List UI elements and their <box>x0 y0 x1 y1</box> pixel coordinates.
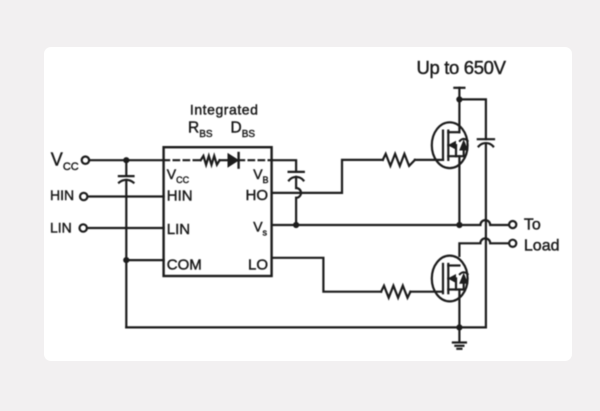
svg-text:LIN: LIN <box>50 219 72 235</box>
wire HO pin to gate resistor <box>272 160 383 193</box>
svg-text:VCC: VCC <box>51 150 79 174</box>
wire C3 down the right rail <box>459 144 486 328</box>
junction Vs/Q1 source <box>456 222 462 228</box>
wire C1 bottom down to COM rail <box>125 180 127 327</box>
wire hop over HO <box>296 188 301 198</box>
node HIN terminal <box>80 193 87 200</box>
wire dashed DBS to VB <box>239 159 272 161</box>
wire dashed VCC to RBS <box>164 159 201 161</box>
transistor Q1 high-side MOSFET <box>432 122 468 168</box>
svg-text:To: To <box>524 217 541 234</box>
wire HV rail to Q1 drain <box>458 88 460 132</box>
junction HV rail <box>456 96 462 102</box>
svg-text:Load: Load <box>524 237 560 254</box>
wire Vs pin to To terminal <box>272 220 509 225</box>
svg-text:RBS: RBS <box>188 120 213 141</box>
wire C2 bottom <box>295 177 297 188</box>
wire Load row <box>459 238 508 256</box>
node HV supply terminal bar <box>454 87 464 89</box>
wire VB pin to bootstrap cap <box>272 160 297 172</box>
wire Q1 source to Vs junction <box>458 156 460 225</box>
svg-text:Integrated: Integrated <box>190 102 259 118</box>
diode DBS cathode bar <box>237 153 239 168</box>
wire C2 to Vs junction <box>295 198 297 225</box>
svg-text:LIN: LIN <box>167 221 190 238</box>
wire R2 to Q2 gate <box>410 291 442 293</box>
svg-text:DBS: DBS <box>231 120 256 141</box>
white schematic card <box>44 47 572 361</box>
node Load terminal <box>509 240 516 247</box>
junction VCC/C1 <box>123 157 129 163</box>
svg-text:VCC: VCC <box>167 166 190 185</box>
wire LO pin to gate resistor <box>272 258 382 292</box>
wire LIN terminal to IC <box>87 227 164 229</box>
node VCC terminal <box>82 157 89 164</box>
svg-text:Vs: Vs <box>253 219 267 238</box>
svg-text:HIN: HIN <box>167 188 193 205</box>
svg-text:LO: LO <box>248 256 268 273</box>
wire COM to IC <box>126 259 163 261</box>
wire HIN terminal to IC <box>88 195 164 197</box>
junction C2/Vs <box>293 222 299 228</box>
capacitor C1 plates <box>119 176 134 183</box>
svg-text:HO: HO <box>246 187 269 204</box>
transistor Q2 low-side MOSFET <box>432 256 468 302</box>
resistor R1 top gate <box>383 154 415 166</box>
wire Q2 source to ground junction <box>458 290 460 328</box>
capacitor C2 bootstrap plates <box>289 172 304 181</box>
capacitor C1 top lead <box>125 160 127 176</box>
ground <box>453 327 466 348</box>
op-amp U1 gate driver IC body <box>164 147 272 276</box>
wire HV rail to bus cap <box>459 99 486 139</box>
wire R1 to Q1 gate <box>415 159 443 161</box>
svg-text:COM: COM <box>167 256 202 273</box>
capacitor C3 bus plates <box>478 139 494 146</box>
node LIN terminal <box>80 224 87 231</box>
wire bottom COM rail <box>126 326 459 328</box>
junction ground <box>456 324 462 330</box>
wire VCC terminal to IC <box>89 159 163 161</box>
svg-text:Up to 650V: Up to 650V <box>417 57 507 78</box>
resistor RBS <box>201 156 220 165</box>
resistor R2 bottom gate <box>381 286 410 298</box>
node To terminal <box>509 221 516 228</box>
wire RBS to DBS <box>220 159 229 161</box>
junction COM <box>123 257 129 263</box>
svg-text:HIN: HIN <box>50 187 74 203</box>
svg-text:VB: VB <box>253 166 268 185</box>
diode DBS <box>228 154 238 167</box>
